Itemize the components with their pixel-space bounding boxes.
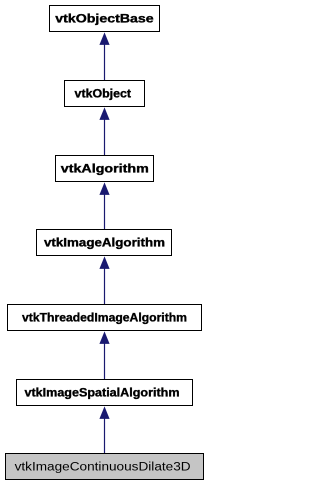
inheritance arrow vtkAlgorithm -> vtkObject [99, 107, 109, 155]
svg-text:vtkThreadedImageAlgorithm: vtkThreadedImageAlgorithm [22, 313, 187, 325]
inheritance arrow vtkImageContinuousDilate3D -> vtkImageSpatialAlgorithm [99, 406, 109, 453]
class box vtkImageSpatialAlgorithm [17, 380, 193, 406]
svg-text:vtkObject: vtkObject [75, 89, 132, 101]
inheritance arrow vtkObject -> vtkObjectBase [99, 32, 109, 80]
class box vtkObjectBase [50, 6, 160, 32]
svg-text:vtkImageContinuousDilate3D: vtkImageContinuousDilate3D [15, 462, 191, 474]
inheritance arrow vtkThreadedImageAlgorithm -> vtkImageAlgorithm [99, 256, 109, 304]
class box vtkAlgorithm [56, 156, 154, 182]
class box vtkObject [65, 81, 145, 107]
svg-text:vtkObjectBase: vtkObjectBase [55, 14, 153, 26]
svg-text:vtkImageAlgorithm: vtkImageAlgorithm [44, 238, 165, 250]
svg-text:vtkAlgorithm: vtkAlgorithm [61, 164, 149, 176]
class box vtkThreadedImageAlgorithm [8, 305, 202, 331]
class box vtkImageAlgorithm [37, 230, 172, 256]
svg-text:vtkImageSpatialAlgorithm: vtkImageSpatialAlgorithm [25, 388, 180, 400]
inheritance arrow vtkImageAlgorithm -> vtkAlgorithm [99, 182, 109, 229]
class box vtkImageContinuousDilate3D (current class, grey fill) [6, 454, 204, 480]
inheritance arrow vtkImageSpatialAlgorithm -> vtkThreadedImageAlgorithm [99, 331, 109, 379]
